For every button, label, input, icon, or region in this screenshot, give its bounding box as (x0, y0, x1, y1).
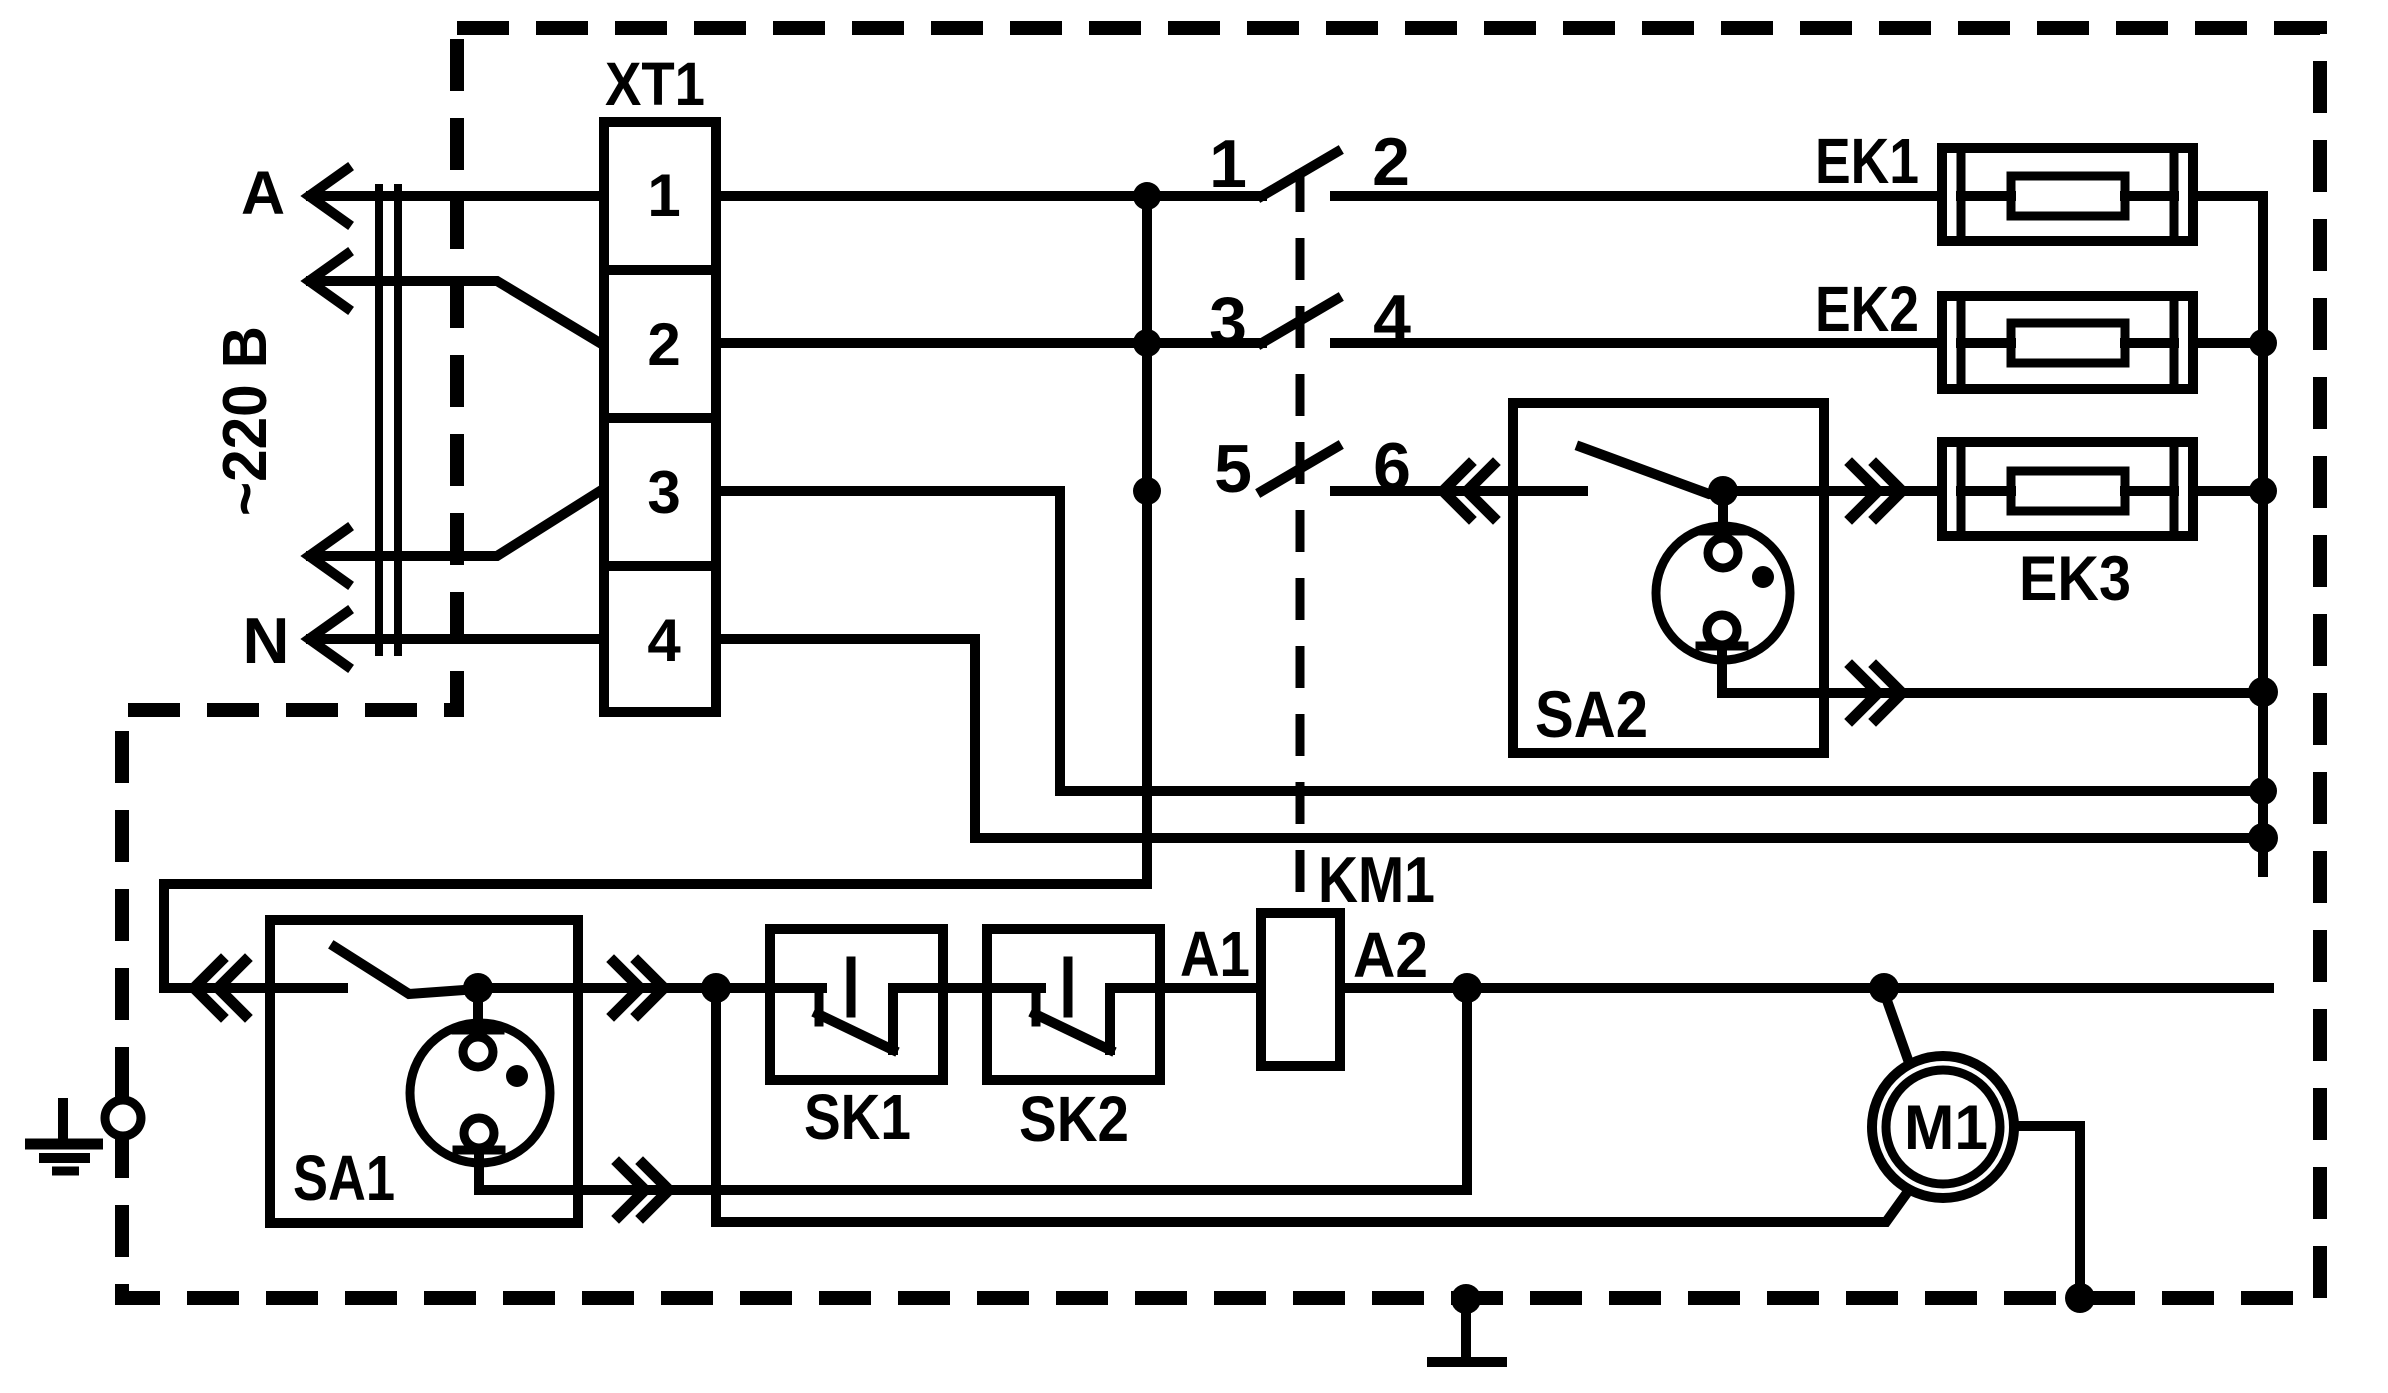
svg-text:EK2: EK2 (1815, 273, 1919, 345)
wire neutral N to XT1:4 (311, 634, 600, 644)
terminal block XT1 (604, 122, 716, 712)
wire line 3 to XT1:3 (311, 491, 600, 556)
contact KM1.3 blade (1262, 447, 1337, 491)
wire motor tap to M1 (1884, 992, 1907, 1057)
svg-text:3: 3 (647, 459, 680, 526)
connector chevrons SA1 lower output (619, 1164, 669, 1216)
wire XT1:4 to heater bus 2 (716, 639, 2263, 838)
wire right return bus vertical (2258, 196, 2268, 872)
connector SA2 rotary plug symbol (1656, 505, 1790, 660)
wire SA1 lower output to A2 node (479, 1150, 1467, 1190)
contact KM1.2 blade (1262, 299, 1337, 343)
junction on line 2 (1133, 329, 1161, 357)
svg-text:EK1: EK1 (1815, 125, 1919, 197)
connector chevrons SA2 to EK3 (1852, 465, 1902, 517)
switch SA1 blade (335, 947, 478, 994)
svg-text:1: 1 (647, 162, 680, 229)
connector chevrons into SA2 (1443, 465, 1493, 517)
junction on A line (1133, 182, 1161, 210)
svg-text:2: 2 (1372, 124, 1410, 200)
wire SA2 output to EK3 (1723, 486, 1942, 496)
heater EK2 (1942, 296, 2193, 389)
junction M1 chassis (2065, 1283, 2095, 1313)
switch SA2 box (1513, 403, 1824, 753)
wire contact 4 to EK2 (1335, 338, 1937, 348)
wire contact 6 to SA2 (1335, 486, 1508, 496)
thermal switch SK2 (987, 929, 1261, 1080)
contact KM1.1 blade (1262, 152, 1337, 196)
wire M1 to chassis (2014, 1126, 2080, 1298)
wire SA1 output to SK1 (478, 983, 770, 993)
arrow head line 3 (309, 529, 347, 583)
heater EK1 (1942, 148, 2193, 241)
svg-text:SK1: SK1 (804, 1081, 911, 1153)
mechanical linkage dashed line KM1 (1296, 170, 1305, 913)
arrow head phase A (309, 169, 347, 223)
svg-text:SA2: SA2 (1535, 677, 1648, 751)
svg-text:1: 1 (1209, 126, 1247, 202)
svg-text:~220 В: ~220 В (211, 326, 280, 516)
wire motor bottom bus (716, 988, 1904, 1222)
supply cord mark (two parallel lines) (379, 188, 398, 652)
connector chevrons SA1 output (614, 962, 664, 1014)
wire contact 2 to EK1 (1335, 191, 1937, 201)
svg-text:EK3: EK3 (2019, 544, 2131, 614)
wire line 2 to XT1:2 (311, 281, 600, 343)
junction bus 2 (2248, 823, 2278, 853)
junction EK2 return (2249, 329, 2277, 357)
heater EK3 (1942, 442, 2193, 536)
junction A2 node (1452, 973, 1482, 1003)
motor M1 (1872, 1056, 2014, 1198)
wire SA2 fixed contact (1513, 486, 1583, 496)
wire XT1:2 to contact 3 (716, 338, 1262, 348)
junction SA1-SK1 node (701, 973, 731, 1003)
svg-text:A1: A1 (1180, 918, 1250, 990)
wire EK2 to bus (2193, 338, 2263, 348)
svg-text:4: 4 (647, 607, 681, 674)
svg-text:SA1: SA1 (293, 1142, 395, 1214)
svg-text:SK2: SK2 (1019, 1083, 1129, 1155)
svg-text:M1: M1 (1904, 1093, 1988, 1163)
wire XT1:1 to contact 1 (716, 191, 1262, 201)
wire phase A to XT1:1 (311, 191, 600, 201)
wire main phase vertical feeder (164, 196, 1147, 988)
junction chassis earth tap (1451, 1284, 1481, 1314)
wire XT1:3 to heater bus 1 (716, 491, 2263, 791)
svg-text:KM1: KM1 (1318, 843, 1435, 916)
ground protective earth symbol (25, 1098, 103, 1171)
relay coil KM1 (1261, 913, 1340, 1066)
thermal switch SK1 (770, 929, 987, 1080)
junction SA2 return (2248, 677, 2278, 707)
junction on line 3 (1133, 477, 1161, 505)
wire SA2 lower output to bus (1722, 646, 2263, 693)
arrow head line 2 (309, 254, 347, 308)
junction SA1 pivot (463, 973, 493, 1003)
svg-text:5: 5 (1214, 431, 1252, 507)
junction SA2 pivot (1708, 476, 1738, 506)
junction bus 1 (2249, 777, 2277, 805)
svg-text:2: 2 (647, 311, 680, 378)
junction motor tap (1869, 973, 1899, 1003)
svg-text:A: A (241, 159, 285, 227)
svg-text:XT1: XT1 (605, 50, 705, 118)
switch SA2 blade (1581, 447, 1723, 494)
ground chassis earth stub (1432, 1299, 1502, 1362)
svg-text:A2: A2 (1353, 919, 1428, 991)
junction EK3 return (2249, 477, 2277, 505)
connector chevrons into SA1 (194, 961, 245, 1015)
wire EK3 to bus (2193, 486, 2263, 496)
svg-text:3: 3 (1209, 283, 1247, 359)
switch SA1 box (270, 920, 578, 1223)
wire EK1 to bus (2193, 191, 2263, 201)
wire KM1 A2 to motor branch (1340, 983, 2269, 993)
arrow head neutral N (309, 612, 347, 666)
wire A2 node down to SA1 return (1462, 988, 1472, 1190)
connector chevrons SA2 lower output (1852, 667, 1902, 719)
svg-text:N: N (243, 604, 290, 677)
connector SA1 rotary plug symbol (410, 1002, 550, 1163)
chassis terminal circle on frame (105, 1100, 141, 1136)
